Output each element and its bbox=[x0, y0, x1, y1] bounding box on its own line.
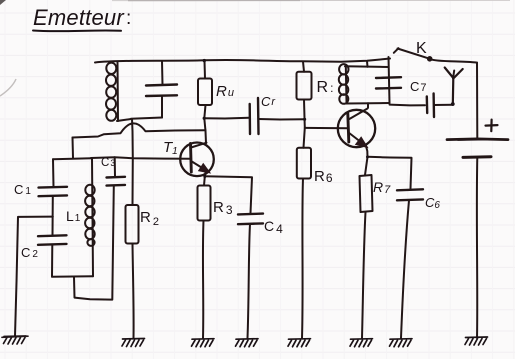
svg-text:K: K bbox=[416, 40, 427, 57]
svg-text:C7: C7 bbox=[410, 79, 427, 94]
svg-text:Emetteur: Emetteur bbox=[33, 5, 125, 30]
svg-text:R6: R6 bbox=[314, 168, 333, 185]
svg-text:Cr: Cr bbox=[261, 94, 276, 109]
svg-text:C3: C3 bbox=[101, 157, 115, 169]
svg-text:R:: R: bbox=[317, 79, 334, 96]
svg-text::: : bbox=[126, 8, 131, 29]
